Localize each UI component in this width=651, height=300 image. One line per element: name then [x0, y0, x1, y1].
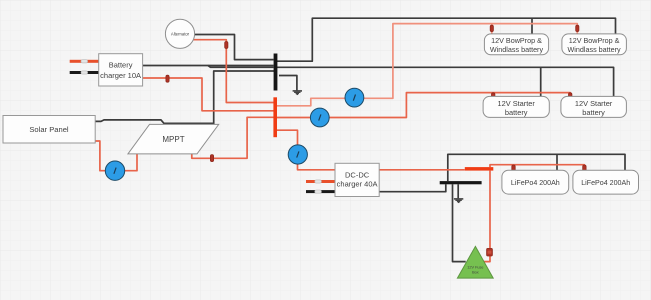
wire battery charger negative to bus [143, 65, 274, 67]
wire bus to starter batteries negative [277, 67, 614, 96]
svg-text:12V BowProp &: 12V BowProp & [491, 36, 542, 45]
wire red bus bar to lifepo4 positives [490, 165, 584, 171]
busbar positive horizontal [465, 167, 494, 171]
dc-dc charger input lead negative [306, 190, 335, 193]
fuse battery charger wire [166, 75, 169, 82]
battery lifepo4 2 [573, 170, 639, 194]
fuse mppt wire [210, 155, 213, 162]
svg-text:LiFePo4 200Ah: LiFePo4 200Ah [581, 179, 630, 187]
svg-text:12V Starter: 12V Starter [575, 99, 613, 108]
battery lifepo4 1 [502, 170, 569, 194]
svg-text:12V Fuse: 12V Fuse [467, 265, 483, 269]
wire dc-dc charger positive to red bus bar [379, 169, 465, 171]
battery 12V bowprop 2 [562, 34, 627, 55]
wire bus to bowprop batteries positive [277, 24, 577, 106]
wire lifepo4 battery 1 negative drop [556, 154, 558, 170]
svg-text:charger 40A: charger 40A [337, 180, 378, 189]
svg-text:battery: battery [582, 108, 605, 117]
wire battery charger positive to bus [143, 78, 274, 111]
mppt [128, 124, 219, 153]
wire bus bar to 12v fuse box negative [453, 184, 466, 261]
svg-text:Windlass battery: Windlass battery [568, 45, 622, 54]
fuse circle solar [105, 161, 124, 180]
wire bowprop battery 1 negative drop [531, 18, 533, 34]
fuse starter battery 1 [492, 93, 495, 100]
svg-text:Solar Panel: Solar Panel [29, 125, 69, 134]
wire mppt negative to bus [214, 71, 274, 124]
svg-text:DC-DC: DC-DC [345, 171, 370, 180]
busbar negative vertical [274, 54, 278, 91]
svg-text:LiFePo4 200Ah: LiFePo4 200Ah [511, 179, 560, 187]
wire red bus bar to 12v fuse box positive [484, 171, 490, 262]
svg-text:Alternator: Alternator [171, 31, 190, 36]
wire dc-dc charger negative to bus bar [379, 184, 446, 191]
svg-text:Box: Box [472, 270, 479, 274]
svg-text:12V Starter: 12V Starter [498, 99, 536, 108]
solar panel [3, 116, 95, 144]
svg-text:12V BowProp &: 12V BowProp & [569, 36, 620, 45]
fuse circle dc-dc feed [288, 145, 307, 164]
fuse alternator wire [225, 42, 228, 49]
wire starter battery 1 positive drop [492, 93, 494, 97]
wire alternator positive to bus [194, 40, 274, 103]
svg-text:Windlass battery: Windlass battery [490, 45, 544, 54]
busbar positive vertical [273, 97, 277, 137]
svg-text:battery: battery [505, 108, 528, 117]
dc-dc charger input lead positive [306, 180, 335, 183]
wire battery charger negative jog to starter feed [208, 66, 274, 68]
wire mppt positive to bus [192, 117, 274, 158]
fuse lifepo4 battery 1 [512, 165, 515, 172]
wire bus to dc-dc charger positive [277, 130, 335, 170]
svg-text:MPPT: MPPT [162, 135, 184, 144]
svg-text:Battery: Battery [109, 60, 133, 69]
ground 2 [454, 199, 463, 203]
wire bus to ground 1 [279, 76, 297, 92]
dc-dc charger 40A [335, 163, 379, 196]
wire starter battery 1 negative drop [540, 67, 542, 96]
wire bus to starter batteries positive [277, 93, 570, 118]
12v fuse box triangle [457, 246, 493, 278]
wire ground 2 stub [457, 184, 459, 198]
alternator [165, 19, 194, 48]
svg-text:charger 10A: charger 10A [100, 71, 141, 80]
fuse 12v fuse box [487, 248, 493, 256]
fuse bowprop battery 1 [490, 25, 493, 31]
wire solar panel negative to mppt [95, 120, 214, 124]
fuse bowprop battery 2 [576, 25, 579, 31]
wire alternator negative to bus and up to bowprop batteries [195, 35, 274, 60]
fuse lifepo4 battery 2 [583, 165, 586, 172]
wire bowprop battery 1 positive drop [491, 24, 493, 34]
battery 12V bowprop 1 [484, 34, 548, 55]
wire lifepo4 negatives to bus bar [448, 154, 625, 181]
fuse circle bowprop feed [345, 88, 364, 107]
wire bus to bowprop batteries negative [277, 18, 616, 61]
battery charger 10A [99, 54, 143, 86]
battery charger AC lead negative [70, 71, 99, 74]
battery 12V starter 2 [561, 96, 627, 117]
wire lifepo4 battery 1 positive drop [513, 165, 515, 171]
battery 12V starter 1 [483, 96, 549, 117]
ground 1 [293, 91, 302, 95]
wire solar panel positive to fuse F1 and mppt [95, 141, 137, 171]
busbar negative horizontal [440, 181, 482, 184]
fuse starter battery 2 [569, 93, 572, 100]
battery charger AC lead positive [70, 60, 99, 63]
fuse circle starter feed [310, 108, 329, 127]
